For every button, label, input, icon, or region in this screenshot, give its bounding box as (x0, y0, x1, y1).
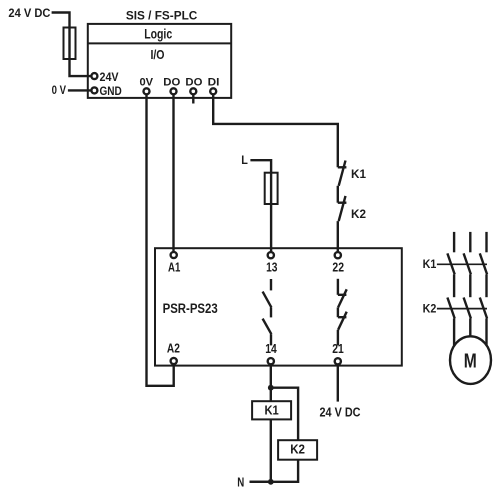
wire K1 coil to N (270, 419, 272, 481)
terminal 14 circle (268, 358, 274, 364)
phase wire 1 to motor (453, 319, 455, 348)
PSR-PS23 box (155, 248, 402, 365)
svg-text:L: L (241, 153, 248, 167)
terminal DO1 circle (171, 88, 177, 94)
wire 0V down-left loop to A2 (147, 94, 174, 386)
phase stub 1 (453, 232, 455, 252)
svg-text:I/O: I/O (150, 47, 164, 62)
terminal 22 circle (335, 252, 341, 258)
terminal 21 circle (335, 358, 341, 364)
svg-text:DI: DI (208, 77, 220, 89)
svg-text:13: 13 (266, 260, 277, 275)
svg-text:21: 21 (332, 342, 344, 356)
svg-text:DO: DO (185, 77, 202, 89)
phase wire 3 to motor (485, 319, 487, 347)
contact K1 NC feedback blade (339, 161, 346, 186)
terminal 24V circle (91, 73, 97, 79)
contactor K1 blade 3 (480, 253, 487, 274)
terminal DI circle (210, 88, 216, 94)
phase wire 2 mid (469, 274, 471, 297)
terminal 13 circle (268, 252, 274, 258)
contact 22-21 lower blade (338, 312, 347, 330)
contact K1 NC feedback foot (338, 166, 347, 168)
contactor K2 blade 1 (447, 298, 454, 319)
contact 22-21 lower foot (338, 316, 347, 318)
svg-text:22: 22 (332, 259, 344, 274)
wire DO2 stub (192, 94, 194, 103)
svg-text:14: 14 (265, 342, 277, 356)
wire DI to feedback contacts (213, 94, 338, 167)
contactor K1 blade 2 (464, 253, 471, 274)
svg-text:K1: K1 (351, 169, 367, 181)
svg-text:24V: 24V (100, 70, 119, 84)
phase wire 1 mid (453, 274, 455, 297)
svg-text:Logic: Logic (144, 26, 172, 42)
contactor K1 link line (437, 263, 487, 265)
wire between 13-14 contacts (270, 307, 272, 317)
svg-text:K2: K2 (290, 441, 305, 456)
wire 14 to junction (270, 364, 272, 401)
contact 22-21 upper stub (337, 279, 339, 295)
fuse F1 top-left (64, 28, 76, 60)
contactor K2 blade 2 (464, 298, 471, 319)
wire 24VDC supply to fuse to 24V terminal (52, 13, 92, 77)
svg-text:0V: 0V (140, 77, 154, 89)
contact 13-14 lower blade (263, 319, 272, 335)
svg-text:24 V DC: 24 V DC (8, 6, 50, 20)
wire N line (250, 481, 271, 483)
svg-text:M: M (464, 350, 477, 373)
PLC logic divider (88, 42, 231, 44)
contact 13-14 upper blade (263, 292, 272, 308)
junction dot below 14 (268, 385, 274, 391)
terminal A1 circle (171, 252, 177, 258)
svg-text:N: N (237, 475, 244, 489)
phase stub 3 (485, 232, 487, 252)
fuse F2 line circuit (265, 173, 278, 204)
wire DO1 to A1 (172, 94, 174, 252)
svg-text:GND: GND (100, 84, 123, 98)
svg-text:K2: K2 (423, 301, 437, 315)
terminal A2 circle (171, 358, 177, 364)
contact K2 NC feedback blade (339, 196, 346, 221)
PLC box SIS/FS-PLC (88, 24, 231, 98)
wire to terminal 21 (337, 330, 339, 346)
svg-text:K2: K2 (351, 209, 366, 221)
svg-text:DO: DO (163, 77, 180, 89)
contactor K1 blade 1 (447, 253, 454, 274)
terminal GND circle (91, 87, 97, 93)
relay coil K2 box (278, 440, 317, 460)
svg-text:SIS / FS-PLC: SIS / FS-PLC (126, 11, 197, 23)
phase wire 2 to motor (469, 319, 471, 339)
svg-text:A1: A1 (168, 259, 180, 274)
terminal DO2 circle (190, 88, 196, 94)
svg-text:24 V DC: 24 V DC (320, 405, 362, 420)
junction dot on N line (268, 479, 274, 485)
wire to terminal 14 (270, 334, 272, 345)
svg-text:K1: K1 (264, 403, 278, 418)
contactor K2 blade 3 (480, 298, 487, 319)
svg-text:A2: A2 (167, 341, 180, 355)
motor M circle (450, 336, 491, 384)
contact K2 NC feedback foot (338, 201, 347, 203)
contactor K2 link line (437, 308, 487, 310)
wire between 22-21 contacts (337, 307, 339, 317)
relay coil K1 box (252, 401, 291, 419)
contact 22-21 upper blade (338, 289, 347, 307)
wire L to fuse to terminal 13 (250, 160, 271, 252)
wire K2 coil to N (250, 460, 299, 482)
wire junction to K2 branch (271, 388, 298, 441)
phase stub 2 (469, 232, 471, 252)
wire K2 feedback to terminal 22 (337, 221, 339, 252)
phase wire 3 mid (485, 274, 487, 297)
svg-text:K1: K1 (423, 257, 437, 271)
wire 0V to GND terminal (68, 89, 91, 91)
svg-text:PSR-PS23: PSR-PS23 (163, 301, 219, 316)
contact 22-21 upper foot (338, 294, 347, 296)
contact 13-14 upper stub (270, 279, 272, 290)
wire between K1 and K2 feedback contacts (337, 186, 339, 203)
svg-text:0 V: 0 V (52, 83, 66, 97)
terminal 0V circle (144, 88, 150, 94)
wire 21 to 24VDC (337, 364, 339, 401)
